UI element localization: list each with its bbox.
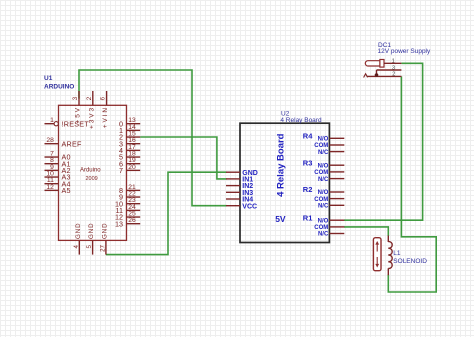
svg-text:VCC: VCC	[242, 203, 257, 210]
svg-text:COM: COM	[314, 143, 328, 149]
svg-text:5: 5	[86, 244, 93, 248]
svg-text:1: 1	[392, 59, 395, 65]
svg-text:20: 20	[128, 164, 136, 171]
svg-text:3: 3	[392, 65, 395, 71]
svg-text:26: 26	[128, 217, 136, 224]
svg-text:COM: COM	[314, 225, 328, 231]
svg-text:ARDUINO: ARDUINO	[44, 84, 74, 91]
svg-text:28: 28	[46, 137, 54, 144]
svg-text:U1: U1	[44, 75, 53, 82]
svg-text:R1: R1	[303, 213, 313, 222]
svg-text:N/C: N/C	[318, 177, 329, 183]
svg-text:5V: 5V	[275, 214, 286, 224]
svg-text:2009: 2009	[85, 176, 97, 182]
svg-text:N/C: N/C	[318, 150, 329, 156]
svg-text:Arduino: Arduino	[80, 167, 101, 173]
svg-text:N/O: N/O	[318, 163, 329, 169]
svg-text:GND: GND	[75, 223, 82, 239]
svg-text:N/O: N/O	[318, 137, 329, 143]
svg-text:R4: R4	[303, 132, 313, 141]
svg-text:6: 6	[100, 96, 107, 100]
svg-text:A5: A5	[62, 186, 71, 195]
svg-text:+5V: +5V	[75, 106, 82, 123]
svg-text:SOLENOID: SOLENOID	[393, 258, 427, 265]
svg-text:+3V3: +3V3	[88, 106, 95, 129]
svg-text:N/C: N/C	[318, 232, 329, 238]
svg-text:L1: L1	[393, 250, 401, 257]
svg-text:+VIN: +VIN	[102, 106, 109, 128]
svg-text:12V power Supply: 12V power Supply	[378, 48, 432, 55]
svg-text:COM: COM	[314, 197, 328, 203]
svg-text:12: 12	[46, 184, 54, 191]
svg-text:27: 27	[99, 244, 106, 251]
svg-text:2: 2	[392, 72, 395, 78]
svg-text:GND: GND	[88, 223, 95, 239]
svg-text:COM: COM	[314, 170, 328, 176]
svg-text:3: 3	[72, 96, 79, 100]
svg-text:4 Relay Board: 4 Relay Board	[280, 117, 322, 124]
svg-text:GND: GND	[101, 223, 108, 239]
svg-text:4: 4	[73, 244, 80, 248]
svg-text:1: 1	[50, 117, 54, 124]
svg-text:13: 13	[115, 219, 123, 228]
svg-text:7: 7	[119, 166, 123, 175]
svg-text:R3: R3	[303, 158, 313, 167]
svg-text:N/O: N/O	[318, 190, 329, 196]
svg-text:N/C: N/C	[318, 204, 329, 210]
svg-text:R2: R2	[303, 185, 313, 194]
svg-text:2: 2	[86, 96, 93, 100]
svg-text:N/O: N/O	[318, 218, 329, 224]
svg-text:AREF: AREF	[62, 139, 83, 148]
svg-text:4 Relay Board: 4 Relay Board	[276, 133, 287, 197]
